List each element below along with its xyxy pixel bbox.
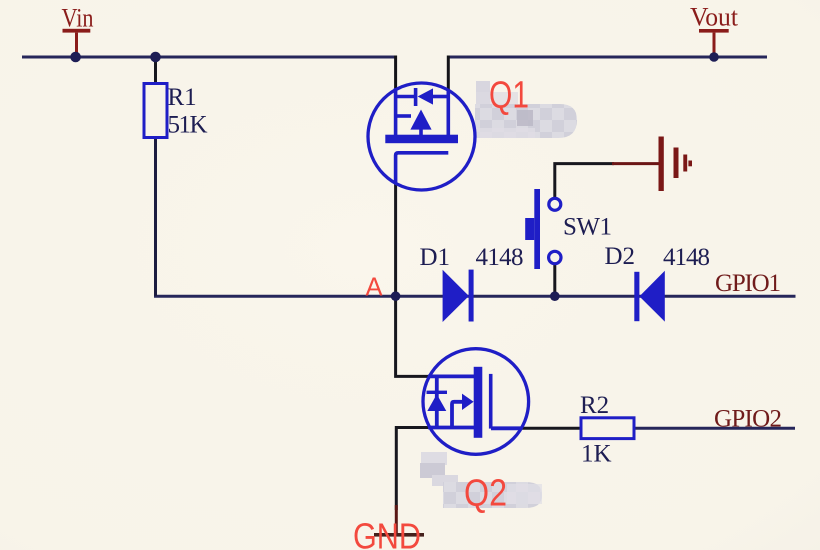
svg-text:D2: D2 <box>605 243 636 270</box>
svg-text:R2: R2 <box>580 392 609 419</box>
svg-text:Q2: Q2 <box>464 473 507 515</box>
svg-text:Q1: Q1 <box>489 75 529 117</box>
svg-text:GPIO1: GPIO1 <box>715 270 781 297</box>
svg-text:Vout: Vout <box>690 3 739 32</box>
svg-text:GPIO2: GPIO2 <box>714 406 782 433</box>
svg-text:R1: R1 <box>168 84 197 111</box>
svg-text:D1: D1 <box>420 244 451 271</box>
svg-text:Vin: Vin <box>62 4 94 33</box>
svg-text:4148: 4148 <box>663 244 710 271</box>
svg-text:GND: GND <box>353 516 421 550</box>
svg-text:SW1: SW1 <box>563 214 612 241</box>
svg-text:4148: 4148 <box>476 244 524 271</box>
svg-text:A: A <box>366 274 383 302</box>
svg-text:1K: 1K <box>581 441 612 468</box>
svg-text:51K: 51K <box>168 112 208 139</box>
